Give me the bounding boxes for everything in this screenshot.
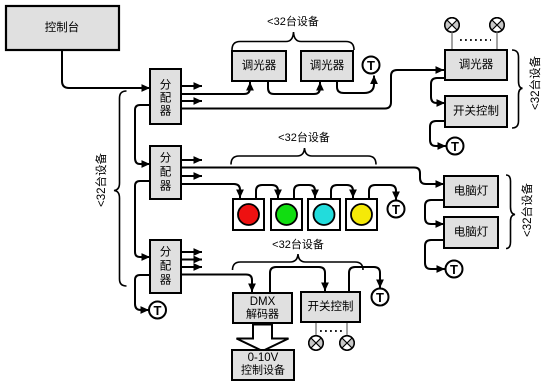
brace middle row bbox=[231, 148, 376, 165]
wire lamp1 stem bbox=[451, 32, 453, 50]
wire 分配器3 to DMX解码器 bbox=[181, 275, 252, 293]
wire 调光器1 to 调光器2 bbox=[268, 81, 320, 94]
box light3 cyan bbox=[308, 199, 340, 230]
svg-text:分: 分 bbox=[160, 246, 172, 259]
svg-text:配: 配 bbox=[160, 92, 172, 105]
box light1 red bbox=[233, 199, 264, 230]
box 开关控制 right bbox=[445, 96, 507, 127]
lamp 2 bottom bbox=[340, 336, 354, 350]
brace top row bbox=[232, 32, 354, 50]
wire 电脑灯1 to 电脑灯2 bbox=[425, 200, 444, 224]
svg-text:T: T bbox=[450, 262, 458, 277]
svg-text:调光器: 调光器 bbox=[242, 58, 277, 72]
wire lamp bottom2 stem bbox=[346, 323, 348, 336]
svg-text:控制设备: 控制设备 bbox=[241, 363, 285, 377]
wire 分配器2 to 分配器3 bbox=[135, 181, 150, 257]
dotted line bottom lamps bbox=[320, 330, 343, 332]
svg-text:<32台设备: <32台设备 bbox=[272, 237, 324, 251]
box 分配器2 bbox=[150, 146, 181, 199]
svg-text:器: 器 bbox=[160, 180, 172, 193]
svg-text:<32台设备: <32台设备 bbox=[278, 130, 330, 144]
box DMX解码器 bbox=[233, 293, 292, 323]
wire 分配器2 to light1 bbox=[181, 184, 240, 198]
wire 分配器2 output arrow 2 bbox=[181, 175, 202, 177]
wire 分配器3 to terminator T6 bbox=[135, 275, 150, 310]
svg-text:解码器: 解码器 bbox=[246, 307, 279, 321]
wire 分配器1 output arrow 1 bbox=[181, 85, 202, 87]
wire 分配器3 output arrow 1 bbox=[181, 251, 202, 253]
wire light2 to light3 bbox=[294, 185, 315, 199]
box 调光器1 bbox=[232, 51, 286, 81]
box 控制台 bbox=[6, 6, 119, 50]
brace bottom row bbox=[233, 254, 364, 270]
svg-text:DMX: DMX bbox=[250, 296, 276, 308]
wire 电脑灯2 to terminator T5 bbox=[425, 240, 445, 269]
wire lamp2 stem bbox=[496, 32, 498, 50]
svg-text:调光器: 调光器 bbox=[459, 57, 494, 71]
svg-text:开关控制: 开关控制 bbox=[308, 299, 354, 313]
wire DMX解码器 to 开关控制 bottom bbox=[270, 267, 325, 293]
brace right top bbox=[512, 50, 523, 128]
terminator T3 bottom row bbox=[372, 289, 389, 306]
brace right middle bbox=[506, 175, 515, 249]
svg-text:器: 器 bbox=[160, 105, 172, 118]
box light2 green bbox=[271, 199, 302, 230]
box 分配器1 bbox=[150, 69, 181, 124]
terminator T2 middle row bbox=[388, 201, 405, 218]
svg-text:T: T bbox=[376, 290, 384, 305]
box light4 yellow bbox=[346, 199, 377, 230]
wire 分配器1 to 分配器2 bbox=[135, 105, 150, 164]
svg-text:T: T bbox=[367, 58, 375, 73]
dotted line top lamps bbox=[460, 39, 491, 41]
terminator T1 top row bbox=[363, 57, 380, 74]
wire 分配器1 to 调光器 right column bbox=[181, 70, 444, 109]
wire 调光器right to 开关控制right bbox=[431, 78, 445, 103]
svg-text:配: 配 bbox=[160, 166, 172, 179]
box 电脑灯2 bbox=[444, 217, 498, 248]
wire 分配器3 output arrow 2 bbox=[181, 259, 202, 261]
lamp 1 top right bbox=[445, 18, 459, 32]
terminator T6 bottom-left bbox=[149, 302, 166, 319]
wire 分配器1 to 调光器1 bbox=[181, 82, 250, 94]
svg-text:T: T bbox=[154, 303, 162, 318]
box 开关控制 bottom bbox=[301, 292, 360, 322]
terminator T4 right top bbox=[447, 138, 464, 155]
wire 分配器1 output arrow 2 bbox=[181, 100, 202, 102]
svg-text:<32台设备: <32台设备 bbox=[528, 56, 542, 111]
svg-text:电脑灯: 电脑灯 bbox=[454, 185, 489, 198]
wire 调光器2 to terminator T1 bbox=[337, 76, 374, 94]
wire light1 to light2 bbox=[256, 185, 278, 199]
terminator T5 right middle bbox=[446, 261, 463, 278]
wire light4 to terminator T2 bbox=[369, 185, 396, 200]
svg-text:配: 配 bbox=[160, 260, 172, 273]
wire 开关控制 bottom to terminator T3 bbox=[349, 267, 380, 292]
brace left <32台设备 bbox=[114, 91, 127, 286]
svg-text:0-10V: 0-10V bbox=[248, 352, 279, 364]
svg-text:T: T bbox=[392, 202, 400, 217]
svg-text:<32台设备: <32台设备 bbox=[267, 14, 319, 28]
svg-text:电脑灯: 电脑灯 bbox=[454, 226, 489, 239]
svg-text:器: 器 bbox=[160, 274, 172, 287]
svg-text:调光器: 调光器 bbox=[310, 58, 345, 72]
svg-text:控制台: 控制台 bbox=[45, 20, 80, 34]
svg-text:开关控制: 开关控制 bbox=[453, 104, 499, 118]
lamp 2 top right bbox=[490, 18, 504, 32]
wire 分配器3 output arrow 3 bbox=[181, 266, 202, 268]
svg-text:T: T bbox=[451, 139, 459, 154]
wire 分配器2 to 电脑灯1 bbox=[181, 168, 444, 185]
lamp 1 bottom bbox=[309, 336, 323, 350]
svg-text:分: 分 bbox=[160, 79, 172, 92]
box 调光器2 bbox=[301, 51, 353, 81]
svg-text:<32台设备: <32台设备 bbox=[520, 183, 534, 238]
wire lamp bottom1 stem bbox=[315, 323, 317, 336]
wire light3 to light4 bbox=[331, 185, 353, 199]
box 电脑灯1 bbox=[444, 176, 498, 207]
box 分配器3 bbox=[150, 240, 181, 293]
svg-text:分: 分 bbox=[160, 152, 172, 165]
wire 分配器2 output arrow 1 bbox=[181, 159, 202, 161]
wire 控制台 to 分配器1 bbox=[62, 50, 150, 88]
svg-text:<32台设备: <32台设备 bbox=[94, 153, 108, 208]
wire 开关控制right to terminator T4 bbox=[430, 121, 446, 146]
big hollow arrow DMX to 0-10V bbox=[237, 325, 289, 352]
box 0-10V 控制设备 bbox=[232, 350, 294, 380]
box 调光器 right bbox=[445, 50, 507, 80]
